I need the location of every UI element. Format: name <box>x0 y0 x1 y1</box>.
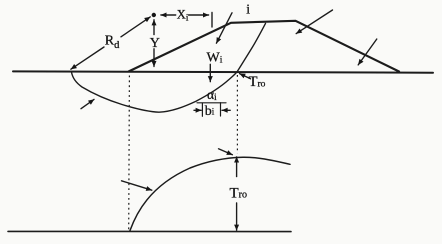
b_i left bar <box>201 103 203 116</box>
weight W_i arrow <box>209 64 211 81</box>
bottom reference line <box>8 230 291 232</box>
svg-text:Rd: Rd <box>105 34 120 52</box>
radius R_d arrow (upper segment to center) <box>121 17 150 37</box>
circle center dot <box>152 13 156 17</box>
embankment outline <box>129 21 399 72</box>
svg-text:Wi: Wi <box>207 51 223 66</box>
pointer arrow to resistance curve <box>122 181 152 190</box>
radius R_d arrow (lower segment to ground) <box>71 47 104 69</box>
mobilized resistance curve <box>130 157 290 230</box>
dimension Y top arrow <box>153 20 155 35</box>
svg-text:Tro: Tro <box>230 185 248 201</box>
b_i left arrow <box>194 109 201 111</box>
pointer arrow near toe (lower) <box>358 39 377 65</box>
pointer arrow T_ro (upper) <box>240 74 251 79</box>
dotted projection line (arc exit) <box>236 75 238 154</box>
ground surface line <box>13 71 433 72</box>
dimension X_i left arrow <box>161 14 176 16</box>
svg-text:Y: Y <box>150 36 160 51</box>
svg-text:bi: bi <box>205 104 215 119</box>
pointer arrow from i to slice <box>216 13 232 43</box>
pointer arrow on downstream face (upper) <box>296 10 332 34</box>
svg-text:Xi: Xi <box>177 7 189 22</box>
dimension T_ro bottom arrow <box>236 203 238 230</box>
dimension X_i right arrow <box>189 14 209 16</box>
pointer arrow to slip circle (left) <box>81 99 94 108</box>
slice centerline tick <box>211 13 213 28</box>
dotted projection line (slope toe) <box>128 76 131 230</box>
b_i right bar <box>220 103 222 116</box>
svg-text:Tro: Tro <box>249 74 266 90</box>
alpha_i horizontal reference line <box>197 102 226 104</box>
dimension Y bottom arrow <box>153 49 155 67</box>
b_i right arrow <box>222 109 230 111</box>
dimension T_ro top arrow <box>236 157 238 177</box>
pointer arrow to curve peak <box>219 149 233 155</box>
slip circle arc <box>72 23 266 112</box>
svg-text:i: i <box>246 2 250 17</box>
